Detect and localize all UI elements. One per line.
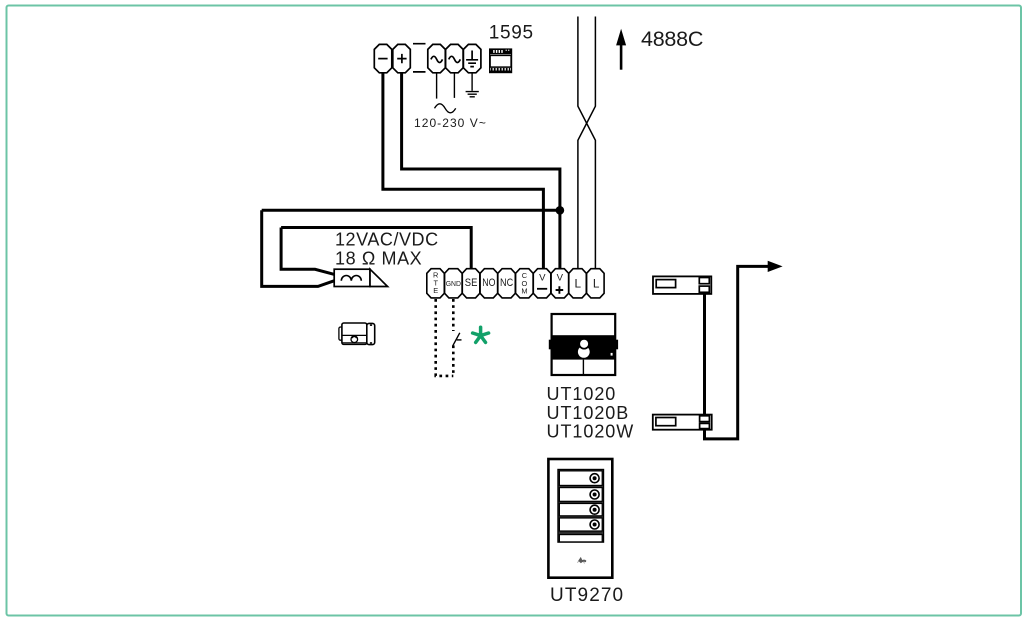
svg-text:E: E (433, 286, 438, 295)
svg-text:NO: NO (482, 277, 496, 289)
svg-text:UT9270: UT9270 (550, 585, 624, 606)
svg-text:L: L (575, 277, 582, 291)
svg-text:12VAC/VDC: 12VAC/VDC (335, 230, 439, 250)
svg-text:18 Ω MAX: 18 Ω MAX (335, 249, 422, 269)
svg-text:UT1020W: UT1020W (547, 422, 635, 442)
svg-text:UT1020B: UT1020B (547, 403, 630, 423)
svg-text:120-230 V~: 120-230 V~ (414, 116, 487, 130)
svg-text:1595: 1595 (489, 23, 534, 44)
svg-text:GND: GND (446, 279, 461, 288)
svg-text:NC: NC (500, 277, 513, 289)
svg-text:L: L (593, 277, 600, 291)
svg-text:UT1020: UT1020 (547, 384, 617, 404)
svg-text:M: M (521, 286, 527, 295)
svg-text:V: V (557, 272, 564, 283)
svg-text:V: V (539, 272, 546, 283)
svg-text:SE: SE (465, 277, 478, 289)
svg-text:4888C: 4888C (641, 27, 703, 51)
